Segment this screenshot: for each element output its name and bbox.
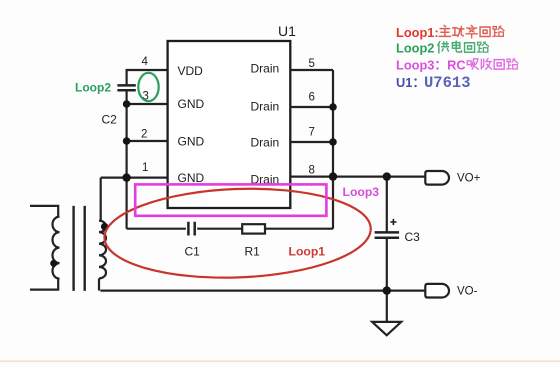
wire pin1 xyxy=(101,177,168,179)
svg-text:Loop2: Loop2 xyxy=(75,81,111,95)
svg-text:Loop3：RC: Loop3：RC xyxy=(396,57,466,72)
svg-text:Loop1: Loop1 xyxy=(289,245,326,259)
wire pin5 xyxy=(290,69,333,71)
node: junction dot bottom rail xyxy=(383,286,391,294)
Loop1 red ellipse xyxy=(103,184,372,282)
svg-text:VO+: VO+ xyxy=(457,173,481,185)
wire C3 to bottom xyxy=(386,238,388,291)
legend line 3: Loop3: RC absorption loop xyxy=(396,57,518,72)
wire pin7 xyxy=(290,141,333,143)
svg-text:C2: C2 xyxy=(102,113,118,127)
svg-text:Loop3: Loop3 xyxy=(343,185,380,199)
svg-text:Drain: Drain xyxy=(251,99,280,113)
transformer primary polarity dot xyxy=(50,260,57,267)
legend line 4: U1: U7613 xyxy=(396,74,471,92)
transformer primary top lead xyxy=(30,206,58,217)
transformer secondary winding xyxy=(99,221,106,279)
C3 polarity plus sign xyxy=(390,219,396,225)
svg-text:GND: GND xyxy=(178,171,205,185)
wire pin8 to VO+ terminal xyxy=(333,176,425,178)
node: junction dot pin8 xyxy=(329,172,337,180)
node: junction dot pin3/C2 xyxy=(123,100,131,108)
capacitor C2 xyxy=(117,85,135,90)
wire C1 to R1 xyxy=(197,228,242,230)
Loop2 green ellipse xyxy=(138,73,158,101)
wire ground stub xyxy=(386,291,388,322)
svg-text:1: 1 xyxy=(142,162,148,174)
bottom tan border line xyxy=(0,360,560,362)
transformer primary bottom lead xyxy=(30,279,58,290)
transformer core xyxy=(74,206,85,291)
wire pin3 xyxy=(127,103,168,105)
transformer secondary bottom lead xyxy=(98,278,100,290)
wire left GND bus xyxy=(125,104,127,229)
op-amp / IC U1 body xyxy=(168,41,291,208)
resistor R1 xyxy=(242,224,265,233)
legend line 2: Loop2: supply loop xyxy=(396,40,489,55)
capacitor C3 xyxy=(375,232,400,237)
terminal VO+ xyxy=(425,171,449,185)
wire pin1 node to transformer secondary xyxy=(100,178,102,221)
svg-text:2: 2 xyxy=(141,128,147,140)
wire pin4 to C2 top xyxy=(127,70,168,85)
wire pin6 xyxy=(290,106,333,108)
wire right drain bus xyxy=(332,70,334,229)
svg-text:VO-: VO- xyxy=(457,286,478,298)
svg-text:U1: U1 xyxy=(278,23,296,39)
svg-text:5: 5 xyxy=(309,58,315,70)
wire bottom VO- rail xyxy=(100,290,425,292)
terminal VO- xyxy=(425,284,449,298)
svg-text:U1：: U1： xyxy=(396,75,425,90)
wire RC branch left xyxy=(127,228,186,230)
Loop3 magenta rectangle xyxy=(135,184,326,215)
node: junction dot pin7 xyxy=(329,138,337,146)
svg-text:6: 6 xyxy=(309,91,315,103)
svg-text:C1: C1 xyxy=(185,244,201,258)
node: junction dot pin2 xyxy=(123,137,131,145)
wire pin2 xyxy=(127,140,168,142)
svg-text:R1: R1 xyxy=(245,244,261,258)
capacitor C1 xyxy=(188,222,194,236)
ground symbol xyxy=(372,322,401,335)
transformer primary winding xyxy=(53,217,60,279)
svg-text:Loop2: Loop2 xyxy=(396,40,434,55)
svg-text:Drain: Drain xyxy=(251,135,280,149)
svg-text:VDD: VDD xyxy=(178,64,204,78)
svg-text:Loop1:: Loop1: xyxy=(396,25,439,40)
wire pin8 xyxy=(290,176,333,178)
svg-text:Drain: Drain xyxy=(251,61,280,75)
wire R1 to drain bus xyxy=(265,228,333,230)
node: junction dot VO+/C3 xyxy=(383,172,391,180)
svg-text:GND: GND xyxy=(178,134,205,148)
node: junction dot pin1 xyxy=(122,173,130,181)
svg-text:4: 4 xyxy=(142,56,149,68)
transformer secondary polarity dot xyxy=(101,223,108,230)
legend line 1: Loop1: main power loop xyxy=(396,25,504,40)
wire node to C3 xyxy=(386,177,388,232)
svg-text:7: 7 xyxy=(309,126,315,138)
svg-text:8: 8 xyxy=(309,164,315,176)
svg-text:GND: GND xyxy=(178,97,205,111)
node: junction dot pin6 xyxy=(329,103,337,111)
svg-text:U7613: U7613 xyxy=(424,74,471,92)
wire C2 bottom to node pin3 xyxy=(125,91,127,105)
svg-text:C3: C3 xyxy=(405,230,421,244)
